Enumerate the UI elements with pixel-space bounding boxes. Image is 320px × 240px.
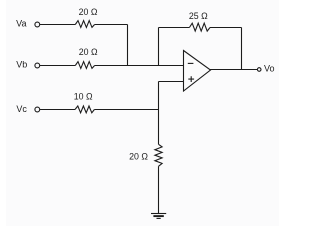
terminal Vc <box>35 107 40 112</box>
op-amp U1 triangle <box>184 51 211 92</box>
wire feedback right vertical to output <box>241 28 243 70</box>
wire op-amp output to Vo <box>210 69 257 71</box>
wire feedback top left <box>159 27 190 29</box>
terminal Vo <box>257 68 261 72</box>
svg-text:Vb: Vb <box>16 60 27 70</box>
wire Va to R1 <box>40 24 75 26</box>
wire R5 to ground <box>158 166 160 213</box>
svg-text:Vo: Vo <box>264 63 275 73</box>
wire node B vertical <box>158 82 160 145</box>
op-amp plus sign <box>188 76 194 82</box>
svg-text:25 Ω: 25 Ω <box>189 11 208 21</box>
ground <box>151 213 166 215</box>
wire R3 to node B <box>94 109 158 111</box>
svg-text:Vc: Vc <box>16 104 27 114</box>
wire feedback left vertical <box>158 28 160 66</box>
svg-text:20 Ω: 20 Ω <box>79 47 98 57</box>
terminal Va <box>35 22 40 27</box>
wire Vb to R2 <box>40 65 75 67</box>
wire feedback top right <box>210 27 242 29</box>
svg-text:20 Ω: 20 Ω <box>129 151 148 161</box>
svg-text:Va: Va <box>16 19 26 29</box>
resistor R5 20ohm (to ground) <box>155 144 162 166</box>
resistor R1 20ohm (Va branch) <box>75 21 94 28</box>
op-amp minus sign <box>188 62 194 64</box>
wire R1 to node A <box>95 24 128 26</box>
resistor R4 25ohm (feedback) <box>189 23 210 31</box>
wire R2 to op-amp inverting input <box>95 65 184 67</box>
resistor R3 10ohm (Vc branch) <box>75 106 94 113</box>
wire non-inverting input horizontal <box>159 81 184 83</box>
svg-text:20 Ω: 20 Ω <box>79 7 98 17</box>
wire node A vertical down to Vb row <box>127 25 129 66</box>
svg-text:10 Ω: 10 Ω <box>74 91 93 101</box>
resistor R2 20ohm (Vb branch) <box>75 62 94 69</box>
wire Vc to R3 <box>40 109 75 111</box>
terminal Vb <box>35 63 40 68</box>
